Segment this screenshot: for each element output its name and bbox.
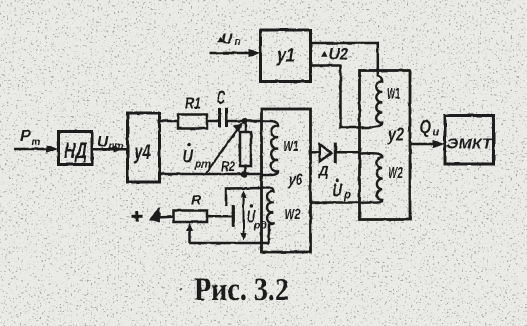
svg-text:U: U [97, 134, 109, 151]
arrowhead diagonal Urt [233, 123, 243, 133]
svg-text:W2: W2 [388, 165, 403, 182]
block EMKT [445, 116, 494, 165]
wire C to node A into U6 [227, 120, 264, 123]
svg-text:Q: Q [420, 116, 432, 137]
label dUp [217, 31, 241, 49]
arrowheads [47, 49, 445, 241]
svg-text:ЭМКТ: ЭМКТ [447, 136, 494, 153]
resistor R2 top lead [244, 121, 247, 132]
svg-text:U: U [333, 181, 343, 201]
arrowhead dUp [249, 49, 261, 57]
svg-text:п: п [235, 37, 241, 48]
svg-text:C: C [217, 88, 225, 109]
block U4 [128, 113, 160, 182]
svg-text:W2: W2 [285, 206, 301, 223]
wire Pt input [14, 148, 51, 151]
diode D [320, 144, 332, 161]
wire U6 to diode [311, 151, 320, 154]
svg-text:у1: у1 [276, 46, 295, 67]
resistor R2 [240, 132, 251, 166]
svg-text:р: р [343, 190, 351, 202]
wire U6 lower output to U2 W2 bottom [311, 201, 360, 204]
arrowhead Qi [433, 140, 445, 148]
svg-text:Д: Д [318, 163, 329, 179]
wire U4 top output to R1 [159, 120, 178, 123]
wire R to feedback capacitor plate [207, 215, 232, 218]
svg-text:НД: НД [64, 138, 87, 163]
wire R1 to C [207, 120, 218, 123]
arrowhead R wiper [186, 223, 193, 231]
stray ink dot [179, 288, 182, 291]
resistor R2 bottom lead [244, 166, 247, 174]
svg-text:т: т [32, 137, 41, 148]
arrowhead Urd top [240, 191, 246, 199]
svg-text:у6: у6 [288, 170, 303, 189]
svg-text:R1: R1 [185, 96, 201, 113]
wire R wiper stem [188, 230, 191, 243]
wire feedback terminal to R [156, 216, 174, 219]
wire W2 bottom lead (U6) [268, 224, 271, 244]
node B junction dot [241, 171, 247, 177]
arrowhead Pt [47, 145, 59, 153]
wire U2 output Qi [410, 143, 437, 146]
svg-text:рд: рд [253, 220, 267, 232]
wire U1 top output down into U2 [311, 43, 378, 77]
label dot-Up [333, 179, 352, 202]
svg-text:Рис. 3.2: Рис. 3.2 [194, 272, 289, 308]
wire ND to U4 [92, 148, 126, 151]
wire feedback bottom [190, 242, 270, 245]
block U2 [360, 71, 411, 220]
block ND [59, 132, 93, 165]
label Urt [97, 134, 124, 152]
svg-text:P: P [20, 128, 31, 145]
svg-text:U2: U2 [329, 46, 349, 64]
svg-text:R: R [191, 192, 202, 208]
winding W2 of U6 [262, 187, 274, 224]
label plus terminal [132, 211, 143, 222]
resistor R potentiometer body [174, 211, 208, 223]
winding W1 of U2 [371, 76, 382, 128]
voltage double arrow Urd [243, 193, 245, 238]
diagonal annotation arrow for Urt [205, 128, 239, 175]
arrowhead plus input terminal [150, 207, 161, 223]
label Qi [420, 116, 440, 139]
label dot-Urt diagonal [183, 143, 212, 171]
svg-text:W1: W1 [387, 86, 400, 103]
wire U1 input [209, 52, 254, 55]
block U1 [261, 30, 311, 82]
label Pt [20, 128, 41, 148]
label dU2 [321, 46, 349, 64]
wire capacitor top plate to U6 W2 top [226, 188, 262, 206]
arrowhead Urd bottom [240, 233, 246, 241]
svg-text:у2: у2 [387, 125, 404, 145]
capacitor C plates [218, 108, 221, 127]
svg-text:рт: рт [108, 141, 124, 152]
winding W2 of U2 [360, 153, 382, 203]
svg-text:рт: рт [194, 159, 212, 171]
svg-text:W1: W1 [284, 138, 299, 155]
winding W1 of U6 [262, 121, 278, 175]
svg-text:U: U [222, 31, 234, 48]
wire U4 bottom output to U6 [159, 173, 263, 176]
svg-text:у4: у4 [134, 141, 151, 164]
block U6 [262, 109, 311, 252]
wire diode to U2 left edge [337, 151, 361, 154]
capacitor plate (feedback) [232, 206, 235, 227]
node A junction dot [242, 118, 248, 124]
arrowhead Urt [114, 146, 123, 152]
wire U1 second output dU2 down to U2 W1 bottom [311, 66, 371, 128]
svg-text:U: U [183, 147, 194, 167]
svg-text:и: и [433, 127, 440, 139]
svg-text:R2: R2 [221, 159, 235, 175]
label dot-Urd [247, 204, 268, 231]
resistor R1 [178, 115, 207, 129]
